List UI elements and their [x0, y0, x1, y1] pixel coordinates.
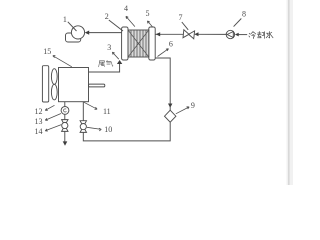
valve 14 (globe valve): [62, 120, 68, 132]
valve 10 (globe valve): [80, 121, 86, 133]
heat exchanger tube bundle: [128, 30, 149, 57]
leader 4: [126, 16, 135, 26]
leader 7: [182, 22, 188, 30]
wire circle to valve 14: [64, 114, 66, 119]
wire pipe 2 (exchanger to pump): [89, 32, 122, 34]
wire cooling water inlet line: [155, 33, 183, 35]
valve 7 (bowtie): [183, 30, 195, 39]
arrow down above diamond: [168, 104, 172, 108]
arrow drain down: [63, 141, 68, 145]
wire arrow to diamond: [169, 106, 171, 110]
leader 6: [158, 49, 169, 57]
shaft: [89, 84, 105, 87]
wire diamond to bottom: [83, 122, 170, 141]
radiator rect: [42, 66, 48, 102]
wire to cooling water text: [239, 34, 248, 36]
svg-text:13: 13: [35, 117, 43, 126]
heat exchanger U4 left cap: [122, 27, 128, 60]
arrow into valve 7: [194, 32, 198, 36]
leader 12: [45, 105, 54, 110]
svg-text:9: 9: [191, 101, 195, 110]
heat exchanger right cap: [149, 27, 155, 60]
arrow exhaust up into exchanger: [117, 60, 122, 64]
wire valve7 to pump8: [198, 33, 226, 35]
leader 5: [147, 21, 152, 27]
arrow into pump 8: [235, 33, 239, 37]
svg-text:14: 14: [35, 127, 43, 136]
text cooling water (vector CJK): [249, 31, 273, 38]
svg-text:8: 8: [242, 10, 246, 19]
leader 13: [45, 114, 61, 121]
text exhaust gas (vector CJK): [99, 60, 113, 66]
leader 15: [53, 55, 72, 66]
svg-text:15: 15: [43, 47, 51, 56]
svg-text:5: 5: [146, 9, 150, 18]
svg-text:10: 10: [104, 125, 112, 134]
glyph shui3 水: [266, 31, 273, 37]
svg-text:12: 12: [35, 107, 43, 116]
glyph que4 却: [257, 31, 264, 38]
leader 9: [176, 107, 189, 114]
svg-text:1: 1: [63, 15, 67, 24]
leader 11: [84, 102, 97, 109]
glyph leng3 冷: [249, 32, 256, 39]
wire exhaust line: [89, 64, 120, 72]
wire engine right drain: [82, 102, 84, 121]
fan ellipses: [51, 69, 57, 100]
sensor circle 13: [61, 107, 69, 115]
pump 8 (circle with triangle): [226, 30, 234, 38]
pump 1 (blower circle with volute box): [66, 26, 85, 42]
leader 3: [112, 52, 119, 59]
diamond 9: [165, 110, 176, 122]
leader 14: [45, 125, 61, 132]
engine 15 box: [59, 68, 89, 102]
svg-text:4: 4: [124, 4, 128, 13]
leader 2: [109, 20, 123, 31]
leader 1: [68, 22, 77, 31]
wire engine left drain top: [64, 102, 66, 107]
glyph qi4 气: [107, 60, 113, 66]
wire valve 14 down: [64, 131, 66, 141]
svg-text:7: 7: [179, 13, 183, 22]
glyph wei3 尾: [99, 61, 105, 67]
arrow into exchanger right: [156, 32, 161, 36]
svg-text:2: 2: [105, 12, 109, 21]
svg-text:11: 11: [103, 107, 111, 116]
svg-text:6: 6: [169, 40, 173, 49]
leader 8: [234, 19, 242, 27]
svg-text:3: 3: [107, 43, 111, 52]
right page edge band: [287, 0, 294, 185]
wire outlet 6 elbow: [155, 58, 170, 104]
leader 10: [87, 127, 101, 131]
arrow into pump 1: [85, 31, 90, 35]
